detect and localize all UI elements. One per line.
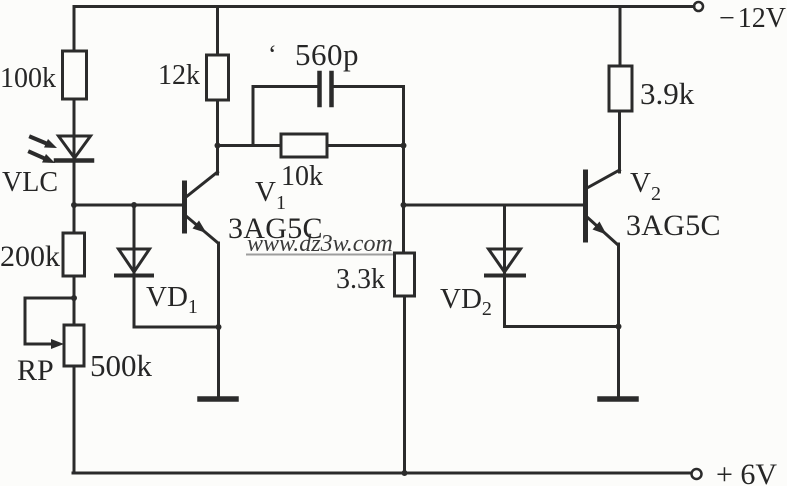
- wire 3.9k branch top: [619, 7, 622, 67]
- resistor 200k: [63, 233, 85, 276]
- wire cap top left: [253, 85, 317, 88]
- diode VD1: [133, 205, 136, 327]
- wire 12k branch top: [216, 7, 219, 56]
- wire left rail: [73, 7, 76, 52]
- wire bottom rail: [73, 472, 690, 475]
- wire node to V2 base: [404, 204, 584, 207]
- wiper loop wire: [25, 298, 74, 344]
- wire top rail: [74, 5, 694, 8]
- wire V2 emitter down: [617, 244, 620, 397]
- wire base V1: [74, 204, 182, 207]
- svg-text:3AG5C: 3AG5C: [626, 209, 721, 242]
- svg-text:560p: 560p: [295, 37, 359, 72]
- wire V1 emitter down: [217, 243, 220, 397]
- svg-text:100k: 100k: [0, 63, 56, 94]
- resistor 10k: [281, 134, 327, 157]
- watermark www.dz3w.com: [246, 231, 393, 257]
- svg-text:10k: 10k: [281, 161, 323, 192]
- wire 100k to VLC: [73, 99, 76, 205]
- svg-text:200k: 200k: [0, 240, 60, 273]
- svg-text:3.9k: 3.9k: [640, 76, 695, 111]
- svg-text:RP: RP: [17, 354, 54, 387]
- wire cap top right: [334, 85, 404, 88]
- svg-text:+ 6V: + 6V: [716, 458, 777, 486]
- svg-text:www.dz3w.com: www.dz3w.com: [247, 231, 393, 257]
- resistor 3.3k: [395, 253, 415, 296]
- svg-text:VD1: VD1: [146, 281, 198, 318]
- arrow light 2: [30, 152, 48, 160]
- svg-text:VLC: VLC: [2, 167, 58, 198]
- svg-text:ʻ: ʻ: [268, 40, 277, 69]
- photodiode VLC: [59, 136, 91, 158]
- resistor 12k: [207, 55, 229, 100]
- resistor 3.9k: [609, 66, 632, 111]
- svg-text:V2: V2: [630, 167, 661, 205]
- node junction dots: [71, 202, 77, 208]
- arrow light 1: [31, 137, 50, 145]
- wire 12k to collector node: [216, 100, 219, 174]
- wire 10k right: [327, 144, 404, 147]
- wire cap stub left: [252, 87, 255, 146]
- wire left rail mid: [73, 205, 76, 233]
- V2 emitter arrowhead: [593, 222, 607, 235]
- wire 3.3k to bottom rail: [403, 296, 406, 473]
- svg-text:500k: 500k: [90, 348, 153, 383]
- V1 collector diagonal: [186, 172, 218, 197]
- V1 emitter arrowhead: [193, 221, 207, 234]
- terminal -12V: [694, 2, 703, 11]
- svg-text:VD2: VD2: [440, 283, 492, 320]
- transistor V2 base bar: [583, 172, 588, 240]
- svg-text:3.3k: 3.3k: [336, 264, 385, 295]
- svg-text:−12V: −12V: [719, 3, 786, 34]
- ground V1: [200, 396, 236, 402]
- V1 emitter diagonal: [186, 216, 218, 243]
- wire 200k to RP: [73, 276, 76, 325]
- wire RP to bottom rail: [73, 366, 76, 473]
- capacitor 560p plates: [317, 73, 322, 105]
- V2 emitter diagonal: [587, 217, 618, 245]
- wire 3.9k to V2 collector: [618, 111, 621, 172]
- resistor 100k: [63, 51, 87, 99]
- wire right vertical to node: [402, 87, 405, 254]
- ground V2: [600, 396, 636, 402]
- svg-text:12k: 12k: [158, 60, 200, 91]
- wire collector node to 10k: [218, 144, 282, 147]
- diode VD2: [503, 205, 506, 327]
- transistor V1 base bar: [182, 183, 187, 231]
- wire VD1 to emitter: [134, 326, 219, 329]
- V2 collector diagonal: [587, 170, 620, 188]
- potentiometer RP body: [64, 325, 84, 366]
- wiper arrow: [51, 339, 64, 349]
- terminal +6V: [692, 469, 702, 479]
- wire VD2 to emitter: [505, 325, 619, 328]
